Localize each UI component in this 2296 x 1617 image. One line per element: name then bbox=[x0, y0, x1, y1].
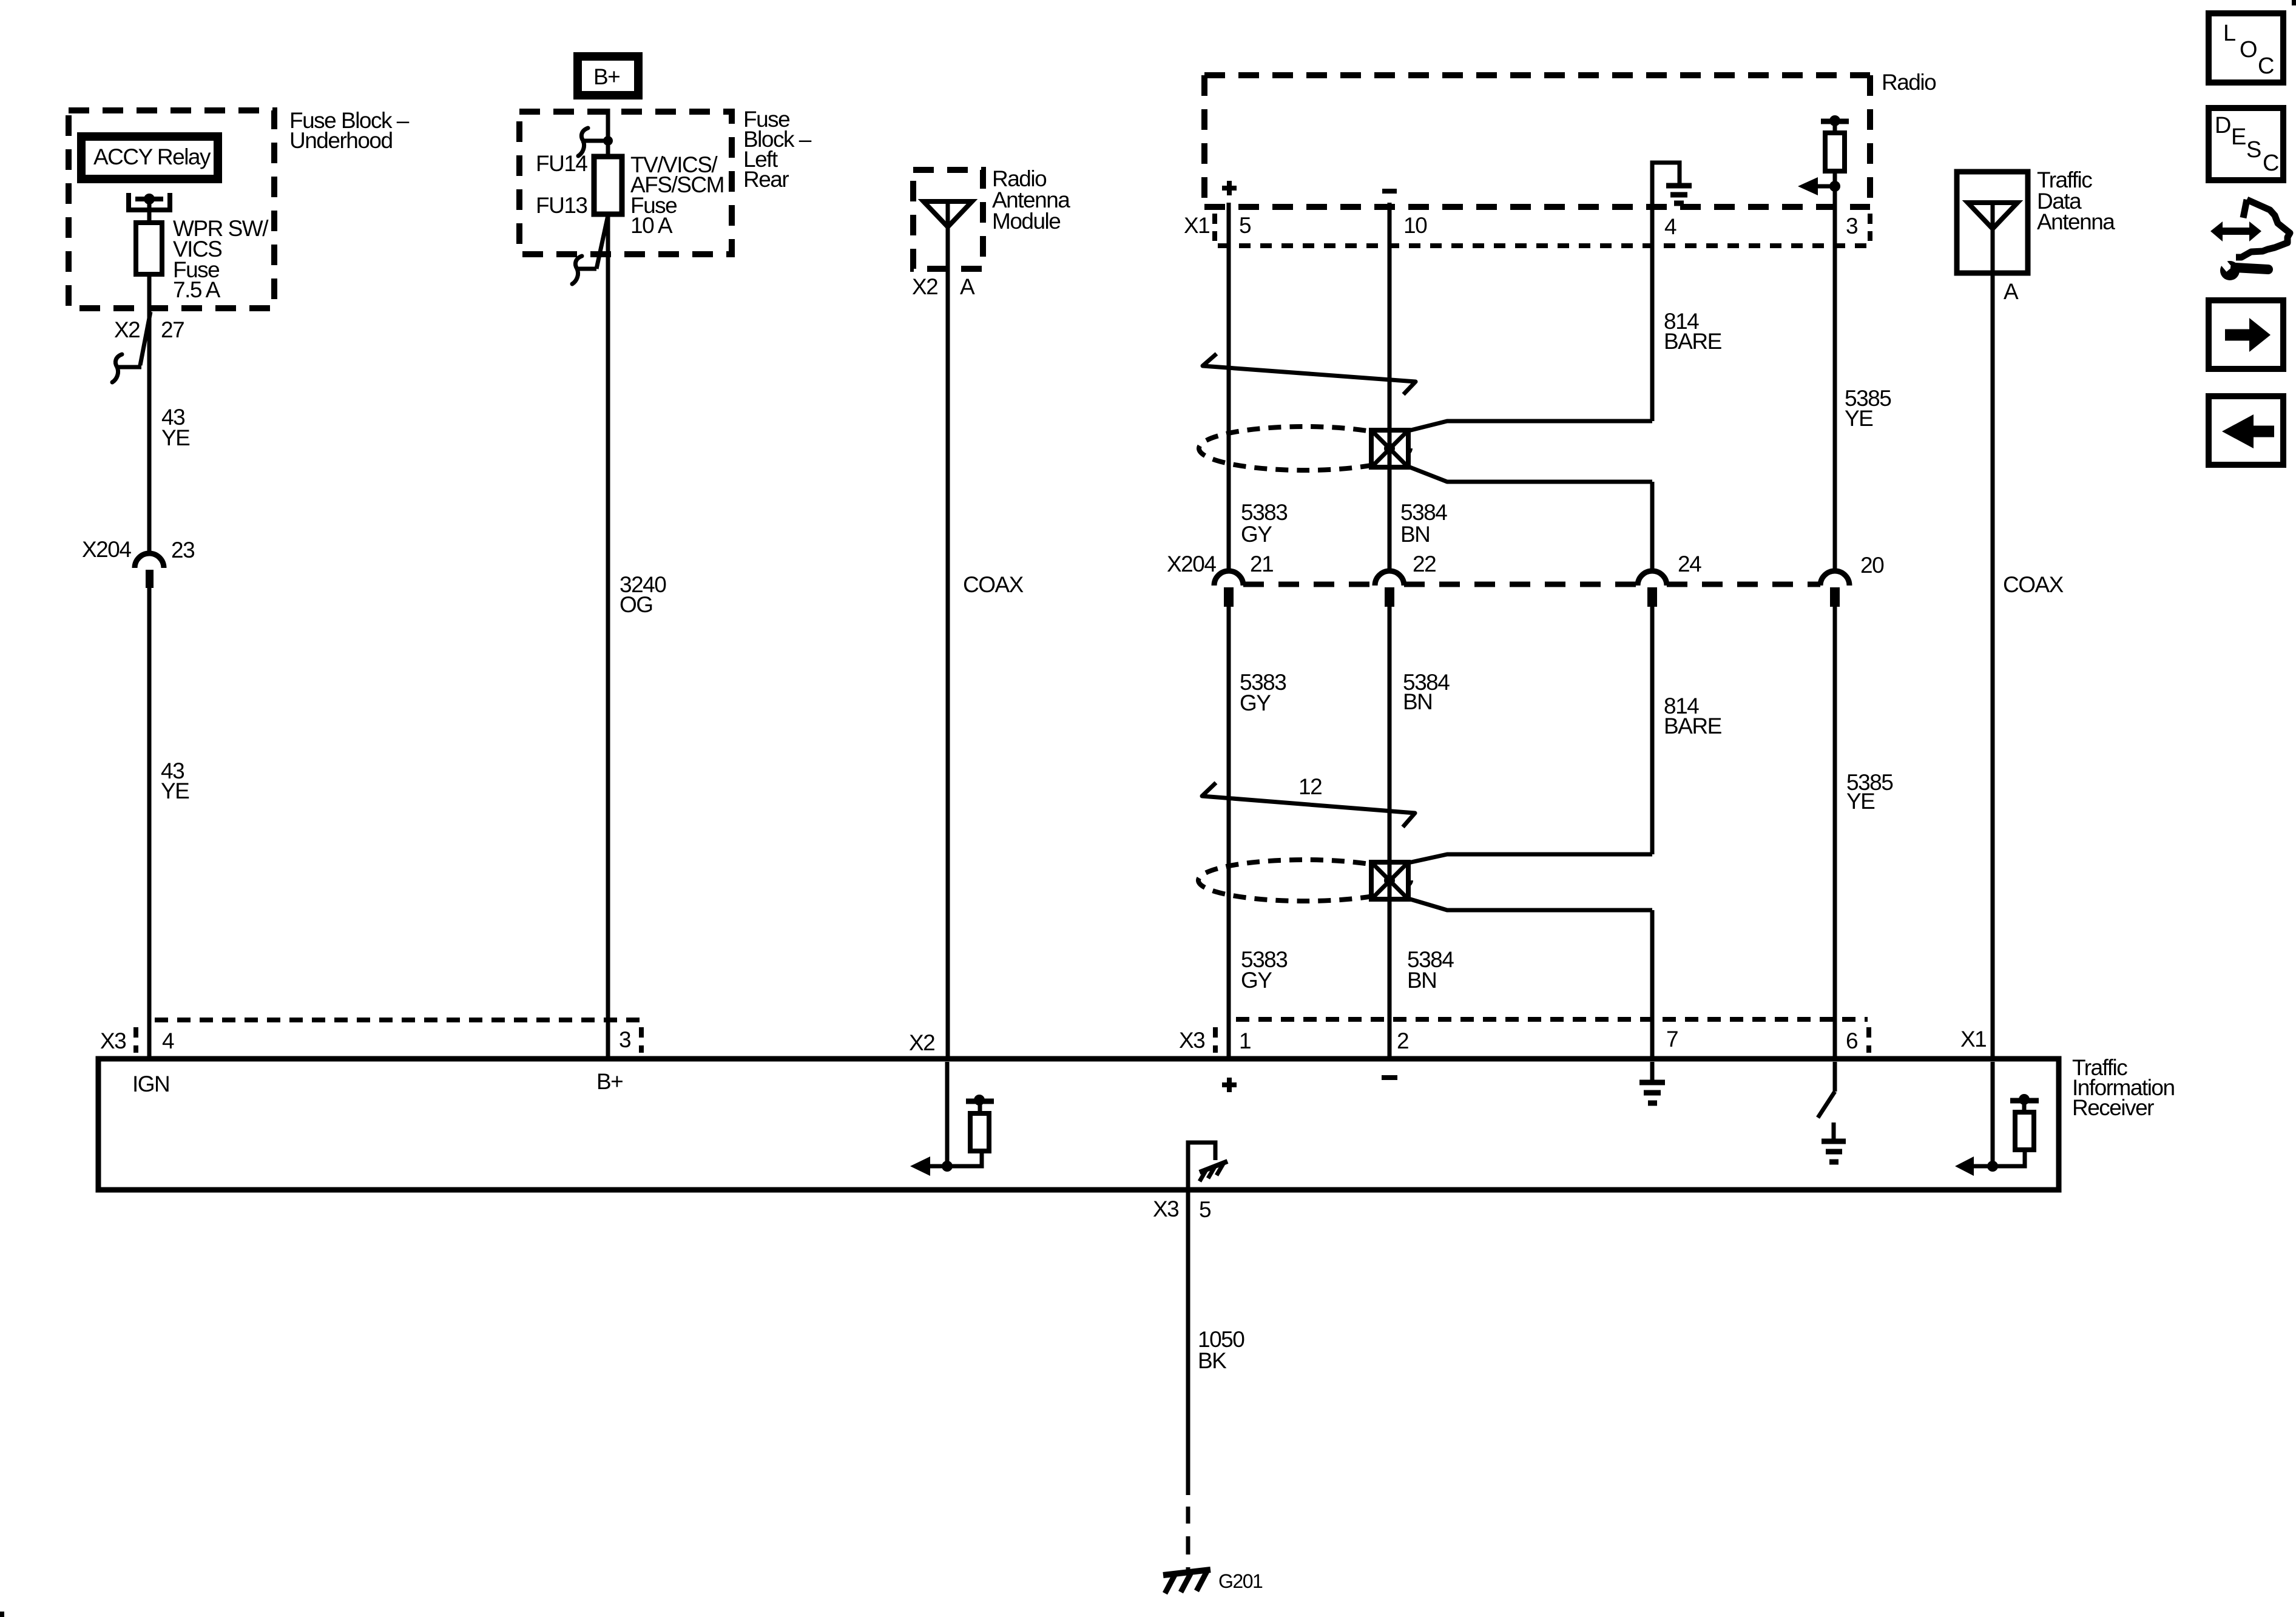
svg-text:X1: X1 bbox=[1184, 213, 1209, 238]
svg-text:X204: X204 bbox=[1167, 552, 1216, 576]
svg-text:X1: X1 bbox=[1960, 1027, 1986, 1052]
svg-text:GY: GY bbox=[1241, 522, 1272, 547]
svg-text:YE: YE bbox=[161, 425, 190, 450]
svg-text:3: 3 bbox=[1846, 214, 1857, 238]
svg-text:22: 22 bbox=[1413, 552, 1436, 576]
svg-text:21: 21 bbox=[1250, 552, 1273, 576]
svg-text:FU14: FU14 bbox=[536, 151, 587, 176]
svg-text:C: C bbox=[2263, 150, 2278, 176]
svg-text:Underhood: Underhood bbox=[289, 128, 393, 153]
svg-text:BN: BN bbox=[1403, 689, 1432, 714]
svg-text:BARE: BARE bbox=[1664, 329, 1722, 354]
svg-text:6: 6 bbox=[1846, 1028, 1857, 1053]
svg-text:3: 3 bbox=[619, 1027, 630, 1052]
svg-text:G201: G201 bbox=[1218, 1570, 1263, 1592]
svg-text:Radio: Radio bbox=[1882, 70, 1936, 95]
svg-text:1: 1 bbox=[1239, 1028, 1251, 1053]
svg-text:Module: Module bbox=[992, 209, 1060, 234]
svg-text:YE: YE bbox=[1845, 406, 1873, 431]
svg-text:5: 5 bbox=[1239, 213, 1251, 238]
svg-text:2: 2 bbox=[1397, 1028, 1408, 1053]
svg-text:X2: X2 bbox=[114, 317, 140, 342]
svg-text:OG: OG bbox=[620, 592, 653, 617]
svg-text:5384: 5384 bbox=[1400, 500, 1447, 525]
svg-text:Rear: Rear bbox=[743, 167, 789, 192]
svg-text:Antenna: Antenna bbox=[2037, 209, 2115, 234]
svg-text:4: 4 bbox=[162, 1028, 174, 1053]
svg-text:5: 5 bbox=[1199, 1197, 1211, 1222]
svg-text:COAX: COAX bbox=[2003, 572, 2064, 597]
svg-text:20: 20 bbox=[1860, 553, 1884, 578]
svg-text:BK: BK bbox=[1198, 1348, 1227, 1373]
svg-text:7.5 A: 7.5 A bbox=[173, 277, 221, 302]
svg-text:BN: BN bbox=[1400, 522, 1430, 547]
svg-text:10 A: 10 A bbox=[630, 213, 673, 238]
svg-text:B+: B+ bbox=[593, 64, 620, 89]
svg-text:X2: X2 bbox=[912, 274, 937, 299]
svg-text:IGN: IGN bbox=[132, 1072, 169, 1096]
svg-text:C: C bbox=[2258, 53, 2274, 79]
svg-text:X3: X3 bbox=[1153, 1197, 1178, 1221]
svg-text:10: 10 bbox=[1403, 213, 1427, 238]
svg-text:E: E bbox=[2231, 124, 2246, 150]
svg-text:FU13: FU13 bbox=[536, 193, 587, 218]
svg-text:YE: YE bbox=[1846, 789, 1875, 814]
svg-text:4: 4 bbox=[1664, 214, 1676, 239]
svg-text:B+: B+ bbox=[596, 1069, 623, 1094]
svg-text:27: 27 bbox=[161, 317, 184, 342]
svg-text:5383: 5383 bbox=[1241, 500, 1287, 525]
svg-text:L: L bbox=[2223, 21, 2235, 46]
svg-text:12: 12 bbox=[1298, 774, 1322, 799]
svg-text:X3: X3 bbox=[1179, 1028, 1204, 1053]
svg-text:Receiver: Receiver bbox=[2072, 1095, 2154, 1120]
svg-text:BARE: BARE bbox=[1664, 714, 1722, 738]
svg-text:BN: BN bbox=[1407, 968, 1436, 993]
svg-text:X2: X2 bbox=[909, 1030, 934, 1055]
svg-text:S: S bbox=[2246, 137, 2261, 163]
svg-text:A: A bbox=[2004, 279, 2019, 304]
svg-text:X204: X204 bbox=[82, 537, 131, 562]
svg-text:X3: X3 bbox=[100, 1028, 126, 1053]
svg-text:24: 24 bbox=[1678, 552, 1701, 576]
svg-text:YE: YE bbox=[161, 778, 189, 803]
svg-text:23: 23 bbox=[171, 538, 194, 562]
svg-text:O: O bbox=[2240, 37, 2257, 62]
svg-text:GY: GY bbox=[1241, 968, 1272, 993]
svg-text:D: D bbox=[2215, 113, 2230, 138]
svg-text:ACCY Relay: ACCY Relay bbox=[93, 144, 211, 169]
svg-text:7: 7 bbox=[1666, 1027, 1678, 1052]
svg-text:COAX: COAX bbox=[963, 572, 1024, 597]
svg-text:GY: GY bbox=[1240, 690, 1271, 715]
svg-text:A: A bbox=[960, 274, 975, 299]
